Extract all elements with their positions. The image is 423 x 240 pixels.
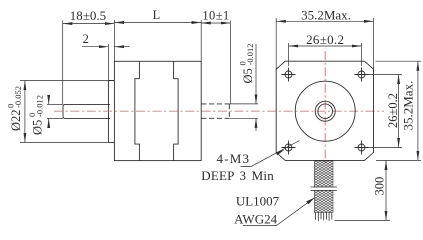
svg-text:26±0.2: 26±0.2	[306, 32, 344, 47]
body seam left	[135, 61, 140, 160]
svg-text:L: L	[153, 8, 161, 22]
svg-text:2: 2	[83, 32, 89, 46]
body seam right	[174, 61, 179, 160]
svg-text:Ø5: Ø5	[241, 68, 255, 83]
leader UL1007	[243, 198, 315, 226]
square flange with chamfered corners	[276, 61, 373, 160]
svg-text:-0.012: -0.012	[245, 44, 255, 66]
shaft (front, left side view)	[63, 104, 110, 118]
front view (right)	[276, 61, 373, 160]
rotated labels	[6, 44, 416, 196]
svg-text:UL1007: UL1007	[236, 193, 280, 208]
35.2 right dim	[417, 61, 419, 160]
wire strands	[316, 212, 332, 221]
leader arrowheads	[276, 150, 285, 156]
svg-text:4-M3: 4-M3	[217, 151, 251, 166]
mounting hole TR	[355, 68, 369, 82]
L dim	[114, 22, 201, 24]
dia22 tolerance label	[6, 86, 24, 131]
shaft hole circles	[315, 101, 335, 121]
texts horizontal	[70, 8, 351, 227]
pilot circle	[295, 81, 355, 141]
svg-text:-0.052: -0.052	[13, 86, 23, 108]
svg-text:-0.012: -0.012	[35, 95, 45, 117]
10 dim	[201, 22, 230, 24]
2 dim	[82, 46, 108, 48]
motor body (side view)	[114, 61, 201, 160]
300 dim	[385, 160, 387, 220]
svg-text:Ø5: Ø5	[31, 120, 45, 135]
svg-text:10±1: 10±1	[202, 9, 229, 23]
dia5 front label	[27, 95, 45, 135]
svg-text:26±0.2: 26±0.2	[386, 93, 400, 128]
26 right dim	[398, 75, 400, 148]
svg-text:AWG24: AWG24	[234, 211, 278, 226]
svg-text:35.2Max.: 35.2Max.	[401, 81, 416, 131]
leader 4-M3	[241, 141, 300, 167]
boss (pilot, side view)	[108, 81, 114, 143]
dia5 rear label	[238, 44, 256, 84]
dia5 front dim	[48, 96, 50, 105]
wire bundle (braided sleeve)	[311, 161, 337, 221]
red centerline horizontal (common axis)	[54, 110, 384, 112]
svg-text:300: 300	[373, 177, 387, 196]
26 top dim	[289, 45, 362, 47]
red centerline vertical (front view)	[324, 51, 326, 166]
dia22 dim	[24, 81, 26, 143]
35.2 top dim	[276, 20, 373, 22]
mounting hole TL	[282, 68, 296, 82]
svg-text:DEEP 3 Min: DEEP 3 Min	[201, 168, 274, 183]
svg-text:35.2Max.: 35.2Max.	[301, 8, 351, 23]
dia5 rear dim	[255, 44, 257, 104]
rear shaft hidden (dashed)	[201, 104, 229, 118]
mounting hole BL	[282, 141, 296, 155]
18 dim	[63, 23, 115, 25]
mounting hole BR	[355, 141, 369, 155]
svg-text:18±0.5: 18±0.5	[70, 8, 106, 23]
svg-text:Ø22: Ø22	[9, 109, 23, 131]
